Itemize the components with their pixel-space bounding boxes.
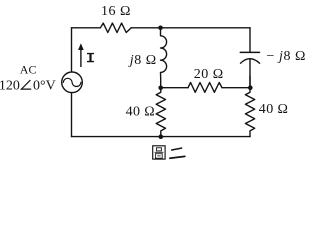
wire top right segment: [161, 27, 251, 29]
caption figure two: char ER (二): [170, 148, 185, 158]
wire right top vertical (to capacitor): [249, 28, 251, 52]
current arrow I: [78, 43, 84, 67]
wire source bottom lead: [71, 93, 73, 137]
wire top middle segment: [131, 27, 160, 29]
inductor j8 ohm: [161, 28, 167, 88]
svg-text:AC: AC: [20, 63, 37, 77]
wire right vertical capacitor to node: [249, 76, 251, 88]
label 120 angle 0 V: [0, 78, 56, 93]
node junction bottom: [159, 134, 164, 139]
wire top left segment: [72, 27, 101, 29]
wire middle right segment: [222, 87, 250, 89]
svg-text:16 Ω: 16 Ω: [101, 4, 131, 19]
resistor 20 ohm: [188, 83, 222, 93]
svg-text:0°V: 0°V: [33, 78, 56, 93]
svg-text:− j8 Ω: − j8 Ω: [267, 49, 307, 64]
label I: [87, 53, 94, 62]
caption figure two: char TU (圖): [153, 146, 165, 159]
svg-text:120: 120: [0, 78, 20, 93]
svg-text:40 Ω: 40 Ω: [126, 105, 156, 120]
svg-text:j8 Ω: j8 Ω: [128, 53, 157, 68]
angle symbol in source label: [21, 80, 31, 89]
wire top-left vertical (source top lead): [71, 28, 73, 72]
wire bottom segment: [72, 136, 251, 138]
AC source V1: [62, 72, 83, 93]
resistor 16 ohm: [100, 23, 131, 32]
capacitor -j8 ohm: [240, 52, 259, 87]
wire middle left segment: [161, 87, 188, 89]
node junction on top wire: [158, 26, 163, 31]
svg-text:40 Ω: 40 Ω: [259, 102, 289, 117]
resistor 40 ohm left: [156, 88, 165, 137]
resistor 40 ohm right: [245, 88, 254, 137]
node junction right middle: [248, 85, 253, 90]
svg-text:20 Ω: 20 Ω: [194, 67, 224, 82]
node junction left middle: [158, 86, 163, 91]
